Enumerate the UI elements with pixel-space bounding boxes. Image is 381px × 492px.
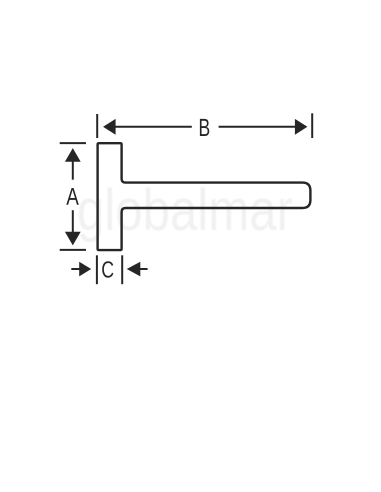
svg-text:globalmar: globalmar (77, 178, 293, 243)
B left tick (96, 114, 98, 138)
A down arrow (65, 232, 81, 246)
C right arrow tail (140, 268, 148, 270)
T-tool outline (98, 143, 311, 250)
B left arrow (103, 119, 116, 135)
A line lower segment (72, 210, 74, 232)
A bottom tick (60, 249, 86, 251)
C left arrow tail (71, 268, 80, 270)
A line upper segment (72, 161, 74, 180)
C left arrowhead (79, 262, 91, 277)
A up arrow (65, 148, 81, 162)
dimension C (71, 255, 147, 284)
C right arrowhead (127, 262, 141, 277)
B line right segment (219, 126, 296, 128)
dimension B (97, 113, 312, 138)
dimension A (60, 143, 86, 250)
C right extension line (121, 255, 123, 284)
B right tick (311, 113, 313, 138)
B label (200, 119, 209, 136)
B line left segment (114, 126, 192, 128)
A label (66, 188, 79, 205)
C left extension line (96, 255, 98, 284)
B right arrow (295, 119, 308, 135)
C label (102, 261, 113, 278)
A top tick (60, 142, 86, 144)
